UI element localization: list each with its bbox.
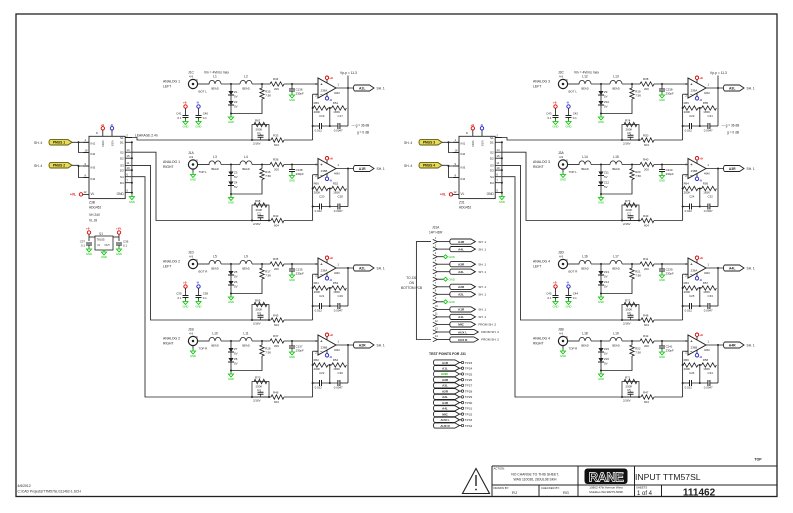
svg-text:230pF: 230pF <box>666 272 674 276</box>
svg-text:4640: 4640 <box>334 171 340 175</box>
svg-text:5V: 5V <box>234 284 238 288</box>
label INPUT TTM57SL <box>635 472 701 482</box>
svg-text:RIGHT: RIGHT <box>163 342 174 346</box>
wire <box>284 83 318 85</box>
node PMUS 4 <box>404 163 442 169</box>
wire <box>698 188 702 208</box>
svg-text:D4: D4 <box>120 181 124 185</box>
inductor L18 <box>579 332 591 348</box>
svg-text:ADG452: ADG452 <box>89 206 101 210</box>
resistor R57 <box>702 281 717 294</box>
svg-text:12: 12 <box>84 190 88 194</box>
wire <box>334 340 354 352</box>
power -9 <box>480 123 484 137</box>
svg-text:0.1: 0.1 <box>573 296 577 300</box>
capacitor C1 <box>253 131 264 146</box>
svg-text:R61: R61 <box>314 281 320 285</box>
svg-text:RIGHT: RIGHT <box>533 165 544 169</box>
svg-text:5V: 5V <box>234 361 238 365</box>
svg-text:R72: R72 <box>625 299 631 303</box>
resistor R42 <box>640 334 654 348</box>
svg-text:A3L: A3L <box>458 270 464 274</box>
svg-text:ACTION:: ACTION: <box>494 467 506 471</box>
svg-text:LEFT: LEFT <box>163 265 171 269</box>
op-amp 236B <box>685 159 706 179</box>
svg-text:C38: C38 <box>203 292 209 296</box>
test point TP25 <box>433 371 472 376</box>
svg-text:C43: C43 <box>546 112 552 116</box>
svg-text:C42: C42 <box>573 112 579 116</box>
power +9 <box>695 256 703 263</box>
svg-text:604: 604 <box>644 223 649 227</box>
svg-text:SH. 4: SH. 4 <box>34 164 42 168</box>
svg-text:2/16V: 2/16V <box>623 222 631 226</box>
svg-text:A4R: A4R <box>729 343 736 347</box>
svg-text:R49: R49 <box>643 214 649 218</box>
test point TP28 <box>433 389 472 394</box>
svg-text:R73: R73 <box>625 199 631 203</box>
svg-text:7.5K: 7.5K <box>265 274 271 278</box>
capacitor C42 <box>566 112 579 122</box>
wire <box>246 319 313 321</box>
svg-text:PMUS 3: PMUS 3 <box>423 141 435 145</box>
svg-text:R38: R38 <box>643 77 649 81</box>
svg-text:200: 200 <box>274 167 279 171</box>
label TO J31 ON BOTTOM PCB <box>401 276 422 290</box>
zener Z12 <box>598 175 609 195</box>
svg-text:C:\CAD Projects\TTM57SL\111462: C:\CAD Projects\TTM57SL\111462-1.SCH <box>18 490 82 494</box>
capacitor C138 <box>289 165 304 177</box>
svg-text:230pF: 230pF <box>296 349 304 353</box>
svg-text:SH. 1: SH. 1 <box>478 308 486 312</box>
svg-text:C20: C20 <box>319 194 325 198</box>
svg-text:R48: R48 <box>643 314 649 318</box>
svg-text:200: 200 <box>274 267 279 271</box>
svg-text:2/16V: 2/16V <box>623 322 631 326</box>
test point TP32 <box>433 412 472 417</box>
op-amp 236B <box>685 335 706 355</box>
pin 5 <box>433 266 487 274</box>
svg-text:RIGHT: RIGHT <box>163 165 174 169</box>
inductor L1 <box>209 75 221 91</box>
ground <box>228 294 234 305</box>
wire <box>578 164 581 166</box>
zener Z7 <box>228 341 238 355</box>
svg-text:7.5K: 7.5K <box>635 94 641 98</box>
svg-text:C32: C32 <box>708 194 714 198</box>
node A3R <box>724 166 755 172</box>
svg-text:R63: R63 <box>684 281 690 285</box>
svg-text:GND: GND <box>190 178 196 182</box>
svg-text:GND: GND <box>659 98 665 102</box>
svg-text:0.0047: 0.0047 <box>704 308 713 312</box>
svg-text:A4R: A4R <box>458 240 465 244</box>
capacitor C2 <box>253 212 264 227</box>
wire <box>347 268 349 306</box>
svg-text:7.5K: 7.5K <box>265 174 271 178</box>
svg-text:A2R: A2R <box>442 389 449 393</box>
svg-text:+9: +9 <box>699 256 703 260</box>
capacitor C8 <box>623 131 634 146</box>
svg-text:GND: GND <box>196 125 202 129</box>
svg-text:GND: GND <box>560 178 566 182</box>
svg-text:SH. 4: SH. 4 <box>404 141 412 145</box>
svg-text:+VL: +VL <box>116 227 122 231</box>
svg-text:MIC: MIC <box>442 412 448 416</box>
svg-text:BEAD: BEAD <box>242 87 249 91</box>
power +9 <box>325 333 333 340</box>
wire <box>616 396 683 398</box>
svg-text:L1: L1 <box>213 75 217 79</box>
svg-text:236A: 236A <box>691 268 698 272</box>
svg-text:R56: R56 <box>703 181 709 185</box>
resistor R59 <box>313 101 328 114</box>
svg-text:R69: R69 <box>255 299 261 303</box>
svg-text:14: 14 <box>126 148 130 152</box>
wire <box>125 138 246 141</box>
inductor L4 <box>240 155 252 171</box>
svg-text:GND: GND <box>598 300 604 304</box>
wire <box>312 351 318 397</box>
wire <box>246 139 313 141</box>
svg-text:-9: -9 <box>699 278 702 282</box>
wire <box>698 107 702 127</box>
resistor R67 <box>252 119 269 141</box>
inductor L10 <box>209 332 221 348</box>
svg-text:GND: GND <box>289 98 295 102</box>
svg-text:0.022: 0.022 <box>685 385 693 389</box>
wire <box>654 164 688 166</box>
pin 14 <box>433 334 499 342</box>
svg-text:SH. 1: SH. 1 <box>747 266 755 270</box>
svg-text:14P HDR: 14P HDR <box>429 231 443 235</box>
power -9 <box>196 100 200 115</box>
svg-text:SH. 1: SH. 1 <box>478 240 486 244</box>
svg-text:10: 10 <box>496 166 500 170</box>
svg-text:4-9: 4-9 <box>559 155 563 159</box>
wire <box>284 164 318 166</box>
pin 2 <box>433 244 487 252</box>
svg-text:R40: R40 <box>643 158 649 162</box>
svg-text:-9: -9 <box>480 123 483 127</box>
capacitor C39 <box>176 292 188 302</box>
svg-text:C40: C40 <box>203 112 209 116</box>
svg-text:R46: R46 <box>273 391 279 395</box>
capacitor C29 <box>322 294 349 313</box>
svg-text:TP29: TP29 <box>465 395 473 399</box>
power -9 <box>566 100 570 115</box>
regulator Q1 78L05 <box>95 232 113 251</box>
svg-text:VDD: VDD <box>471 140 475 147</box>
svg-text:BEAD: BEAD <box>581 344 588 348</box>
svg-text:230pF: 230pF <box>296 92 304 96</box>
svg-text:10: 10 <box>126 166 130 170</box>
svg-text:g = 0 dB: g = 0 dB <box>727 131 739 135</box>
svg-text:0.022: 0.022 <box>685 308 693 312</box>
warning triangle <box>463 469 490 494</box>
svg-text:A2L: A2L <box>359 266 365 270</box>
svg-text:A3R: A3R <box>458 263 465 267</box>
svg-text:C29: C29 <box>338 294 344 298</box>
wire <box>131 152 246 220</box>
svg-text:7.5K: 7.5K <box>635 174 641 178</box>
ground <box>101 250 107 260</box>
svg-text:+VL: +VL <box>70 193 76 197</box>
op-amp 236A <box>315 258 336 278</box>
svg-text:R71: R71 <box>625 376 631 380</box>
svg-text:R41: R41 <box>643 257 649 261</box>
svg-text:+9: +9 <box>183 280 187 284</box>
svg-text:VH 24V: VH 24V <box>89 213 101 217</box>
svg-text:g = 0 dB: g = 0 dB <box>357 131 369 135</box>
capacitor C3 <box>253 311 264 326</box>
svg-text:7.5K: 7.5K <box>265 351 271 355</box>
svg-text:L16: L16 <box>582 255 588 259</box>
svg-text:+9: +9 <box>101 123 105 127</box>
ground <box>659 350 665 360</box>
wire <box>591 164 610 166</box>
svg-text:A3L: A3L <box>442 384 448 388</box>
capacitor C33 <box>692 294 719 313</box>
svg-text:TOP L: TOP L <box>569 170 578 174</box>
svg-text:-9: -9 <box>329 178 332 182</box>
svg-text:L13: L13 <box>613 75 619 79</box>
pin 12 <box>433 319 497 327</box>
capacitor C37 <box>80 240 92 250</box>
svg-text:604: 604 <box>644 143 649 147</box>
svg-text:SH. 1: SH. 1 <box>478 247 486 251</box>
resistor R36 <box>270 158 284 172</box>
svg-text:GND: GND <box>228 300 234 304</box>
svg-text:PMUS 2: PMUS 2 <box>53 164 65 168</box>
resistor R69 <box>252 299 269 321</box>
svg-text:BEAD: BEAD <box>211 87 218 91</box>
capacitor C23 <box>683 114 695 133</box>
resistor R45 <box>271 314 284 327</box>
capacitor C19 <box>313 114 325 133</box>
test point TP23 <box>433 360 472 365</box>
wire <box>578 263 581 265</box>
pin 8 <box>433 289 487 297</box>
power +VL <box>70 193 89 197</box>
power -9 <box>695 273 702 282</box>
svg-text:SH. 1: SH. 1 <box>747 343 755 347</box>
ground <box>598 371 604 382</box>
svg-text:BEAD: BEAD <box>612 87 619 91</box>
wire <box>616 139 683 141</box>
svg-text:L17: L17 <box>613 255 619 259</box>
svg-text:IN3: IN3 <box>461 165 466 169</box>
svg-text:ADG452: ADG452 <box>459 206 471 210</box>
svg-text:GND: GND <box>449 277 455 281</box>
svg-text:S4: S4 <box>490 175 494 179</box>
wire <box>682 175 688 221</box>
resistor R43 <box>271 214 284 227</box>
svg-text:C39: C39 <box>176 292 182 296</box>
power +9 <box>96 123 105 137</box>
svg-text:S1: S1 <box>490 136 494 140</box>
zener Z3 <box>228 165 238 179</box>
svg-text:TP23: TP23 <box>465 361 473 365</box>
capacitor C26 <box>683 371 695 390</box>
svg-text:GND: GND <box>183 125 189 129</box>
svg-text:A1L: A1L <box>359 86 365 90</box>
svg-text:230pF: 230pF <box>296 172 304 176</box>
svg-text:R45: R45 <box>273 314 279 318</box>
pin 10 <box>433 304 487 312</box>
label ANALOG 2 <box>163 260 180 269</box>
svg-text:— g = 36 dB: — g = 36 dB <box>352 124 370 128</box>
svg-text:L19: L19 <box>613 332 619 336</box>
wire <box>717 88 719 126</box>
svg-text:+9: +9 <box>329 76 333 80</box>
svg-text:0.1: 0.1 <box>81 244 85 248</box>
resistor R20 <box>601 165 641 195</box>
power -9 <box>325 93 332 102</box>
svg-text:GND: GND <box>228 377 234 381</box>
svg-text:C34: C34 <box>708 371 714 375</box>
svg-text:SH. 1: SH. 1 <box>377 86 385 90</box>
svg-text:14: 14 <box>435 334 438 338</box>
svg-text:0.1: 0.1 <box>547 296 551 300</box>
svg-text:A3R: A3R <box>442 378 449 382</box>
capacitor C45 <box>546 292 558 302</box>
capacitor C4 <box>253 388 264 403</box>
svg-text:4640: 4640 <box>704 91 710 95</box>
svg-text:4-9: 4-9 <box>559 255 563 259</box>
wire <box>622 164 640 166</box>
svg-text:1 of 4: 1 of 4 <box>637 491 653 497</box>
inductor L11 <box>240 332 252 348</box>
svg-text:BEAD: BEAD <box>211 267 218 271</box>
svg-text:4640: 4640 <box>334 91 340 95</box>
ground <box>553 299 559 309</box>
capacitor C6 <box>623 311 634 326</box>
svg-text:ANALOG 4: ANALOG 4 <box>533 337 550 341</box>
test point TP30 <box>434 400 473 405</box>
svg-text:GND: GND <box>441 372 449 376</box>
svg-text:0.022: 0.022 <box>315 209 323 213</box>
capacitor C32 <box>692 194 719 213</box>
wire <box>616 220 683 222</box>
power +9 <box>183 280 187 295</box>
wire <box>125 138 133 197</box>
svg-text:L15: L15 <box>613 155 619 159</box>
svg-text:+9: +9 <box>699 333 703 337</box>
wire <box>221 340 240 342</box>
wire <box>704 263 724 275</box>
zener Z15 <box>598 341 609 355</box>
wire <box>328 107 332 127</box>
svg-text:BEAD: BEAD <box>612 267 619 271</box>
svg-text:SH. 1: SH. 1 <box>377 266 385 270</box>
label file path <box>18 484 82 494</box>
jack J3A <box>558 151 579 174</box>
resistor R53 <box>332 281 347 294</box>
zener Z13 <box>598 264 609 278</box>
resistor R19 <box>601 84 641 114</box>
zener Z11 <box>598 165 609 179</box>
svg-text:S3: S3 <box>120 164 124 168</box>
svg-text:NO CHANGE TO THIS SHEET,: NO CHANGE TO THIS SHEET, <box>511 473 559 477</box>
IC Z3B ADG452 <box>89 136 125 198</box>
svg-text:78L05: 78L05 <box>97 238 105 242</box>
inductor L17 <box>610 255 622 271</box>
svg-text:S2: S2 <box>490 151 494 155</box>
resistor R61 <box>313 281 328 294</box>
svg-text:SH. 4: SH. 4 <box>404 164 412 168</box>
svg-text:11: 11 <box>435 311 438 315</box>
op-amp 236A <box>685 258 706 278</box>
svg-text:TOP R: TOP R <box>569 347 578 351</box>
svg-text:D2: D2 <box>120 157 124 161</box>
resistor R54 <box>332 358 347 371</box>
label LEAKAGE <box>135 134 158 138</box>
svg-text:L4: L4 <box>244 155 248 159</box>
power -9 <box>566 280 570 295</box>
wire <box>442 141 459 152</box>
label ANALOG 4 <box>533 337 550 346</box>
svg-text:LEFT: LEFT <box>533 85 541 89</box>
svg-text:+9: +9 <box>699 76 703 80</box>
svg-text:L10: L10 <box>212 332 218 336</box>
capacitor C240 <box>659 165 674 177</box>
svg-text:236B: 236B <box>321 169 328 173</box>
wire <box>208 263 211 265</box>
svg-text:R34: R34 <box>273 77 279 81</box>
wire <box>682 94 688 140</box>
wire <box>334 163 354 175</box>
wire <box>252 164 270 166</box>
svg-text:TOP R: TOP R <box>199 347 208 351</box>
svg-text:GND: GND <box>659 355 665 359</box>
svg-text:7.5K: 7.5K <box>635 274 641 278</box>
wire <box>704 83 724 95</box>
svg-text:TO J31: TO J31 <box>406 276 417 280</box>
svg-text:R33: R33 <box>273 134 279 138</box>
svg-text:0.0047: 0.0047 <box>334 128 343 132</box>
svg-text:GND: GND <box>659 179 665 183</box>
svg-text:R37: R37 <box>273 334 279 338</box>
svg-text:SH. 1: SH. 1 <box>478 315 486 319</box>
svg-text:R65: R65 <box>684 101 690 105</box>
svg-text:200: 200 <box>274 344 279 348</box>
svg-text:A4R: A4R <box>442 401 449 405</box>
svg-text:TP33: TP33 <box>465 418 473 422</box>
svg-text:604: 604 <box>274 143 279 147</box>
wire <box>717 169 719 207</box>
node A1L <box>354 85 385 91</box>
resistor R73 <box>622 199 639 221</box>
svg-text:LEFT: LEFT <box>533 265 541 269</box>
resistor R35 <box>270 257 284 271</box>
svg-text:14: 14 <box>496 148 500 152</box>
svg-text:R64: R64 <box>684 181 690 185</box>
svg-text:10: 10 <box>435 304 438 308</box>
svg-text:BOT L: BOT L <box>569 90 578 94</box>
zener Z9 <box>598 84 608 98</box>
zener Z5 <box>228 264 238 278</box>
svg-text:TP24: TP24 <box>465 367 473 371</box>
svg-text:R36: R36 <box>273 158 279 162</box>
pin 1 <box>433 236 487 244</box>
svg-text:12: 12 <box>454 190 458 194</box>
jack J1A <box>188 151 209 174</box>
ground <box>560 169 566 182</box>
svg-text:-9: -9 <box>699 98 702 102</box>
resistor R62 <box>313 358 328 371</box>
label TEST POINTS FOR J31 <box>429 352 466 356</box>
